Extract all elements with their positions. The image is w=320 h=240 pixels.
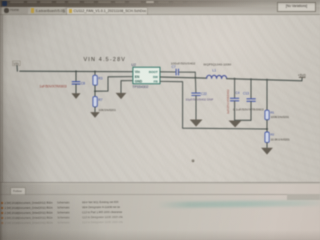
svg-text:C13: C13	[243, 91, 249, 95]
capacitor C22	[192, 93, 200, 95]
wire C8 top	[75, 71, 77, 81]
bottom messages panel	[0, 184, 320, 240]
node junction C4	[234, 78, 236, 80]
resistor R7	[93, 97, 97, 107]
node junction SW/C22	[194, 77, 196, 79]
wire C13 top	[250, 79, 252, 98]
ground below C4/C13	[229, 121, 242, 128]
resistor R3	[93, 75, 97, 85]
bottom separator line	[0, 182, 320, 183]
svg-text:0.1uF/50V/X7R/0603: 0.1uF/50V/X7R/0603	[233, 107, 264, 111]
top menu bar	[0, 0, 320, 7]
bottom-right gray box	[287, 194, 320, 200]
svg-text:10K/1%/0201: 10K/1%/0201	[99, 108, 117, 112]
ground below C22	[190, 120, 203, 127]
wire C22 bottom	[195, 96, 197, 120]
wire EN dogleg	[95, 77, 132, 92]
wire R7 top	[94, 91, 96, 96]
inductor L1	[207, 75, 227, 78]
capacitor C13	[247, 99, 255, 102]
svg-text:C7: C7	[172, 65, 176, 69]
svg-text:VIN: VIN	[14, 62, 20, 66]
bottom panel tab	[10, 187, 26, 195]
teal glare streak	[156, 200, 320, 208]
node junction divider	[266, 79, 268, 81]
svg-text:100K/1%/0201: 100K/1%/0201	[271, 115, 290, 119]
power port +5V flag	[298, 73, 306, 80]
svg-text:+5V0: +5V0	[298, 73, 306, 77]
svg-text:GND: GND	[135, 79, 143, 83]
wire C13 bottom	[250, 102, 252, 121]
capacitor C7	[176, 69, 178, 75]
wire VOUT rail	[227, 79, 302, 81]
wire VIN rail	[20, 70, 132, 73]
wire R3 bottom to node	[94, 85, 96, 91]
svg-text:C8: C8	[81, 81, 85, 85]
resistor R1	[265, 110, 269, 120]
wire C4 bottom	[234, 101, 236, 120]
svg-text:VIN 4.5-28V: VIN 4.5-28V	[84, 57, 127, 63]
svg-text:L1: L1	[212, 68, 216, 72]
svg-text:100nF/50V/0402: 100nF/50V/0402	[171, 61, 196, 65]
wire divider top	[266, 80, 268, 110]
svg-text:C4: C4	[235, 91, 239, 95]
svg-text:10µF/50V/0402 DNP: 10µF/50V/0402 DNP	[186, 97, 214, 101]
ground below divider	[261, 148, 273, 155]
node junction C13	[250, 78, 252, 80]
ground below C8	[71, 93, 80, 99]
power port VIN flag	[13, 61, 21, 71]
wire output caps ground bus	[235, 119, 251, 121]
node junction R3	[94, 71, 96, 73]
wire BOOT to C7	[160, 71, 176, 73]
svg-text:R2: R2	[270, 132, 274, 136]
svg-text:C22: C22	[201, 92, 207, 96]
wire R7 bottom	[94, 107, 96, 112]
document tab strip	[0, 7, 320, 15]
ground below IC GND pin	[116, 93, 127, 99]
node junction FB	[266, 128, 268, 130]
svg-text:Vin: Vin	[135, 70, 140, 74]
wire C22 top	[194, 78, 197, 93]
svg-text:TPS54302: TPS54302	[132, 85, 148, 89]
wire divider bottom	[266, 143, 268, 148]
svg-text:R7: R7	[98, 98, 102, 102]
svg-text:R3: R3	[98, 77, 102, 81]
svg-text:1uF/25V/X5R/0402: 1uF/25V/X5R/0402	[226, 89, 230, 114]
svg-text:WQP5Q1040-100M: WQP5Q1040-100M	[203, 63, 231, 67]
svg-text:1uF/50V/X7R/0603: 1uF/50V/X7R/0603	[40, 84, 67, 88]
svg-text:U2: U2	[131, 63, 136, 67]
mouse cursor speck	[192, 159, 195, 162]
messages rows	[0, 196, 320, 231]
node junction EN divider	[94, 90, 96, 92]
wire SW to inductor	[160, 77, 207, 78]
wire C7 to SW node	[179, 72, 195, 78]
wire C8 bottom	[75, 84, 77, 93]
wire GND pin dogleg	[121, 81, 132, 93]
resistor R2	[265, 132, 269, 143]
svg-text:R1: R1	[270, 110, 274, 114]
node junction C8	[75, 70, 77, 72]
svg-text:10.0K/1%/0201: 10.0K/1%/0201	[271, 138, 291, 142]
op-amp / IC U2 body	[133, 67, 160, 84]
wire divider mid	[266, 120, 268, 132]
wire R3 top	[94, 72, 96, 76]
ground below R7	[90, 112, 100, 118]
wire FB net	[160, 81, 267, 129]
svg-text:BOOT: BOOT	[149, 70, 158, 74]
schematic background	[0, 15, 320, 183]
wire C4 top	[234, 79, 236, 98]
capacitor C4	[230, 98, 238, 101]
capacitor C8	[72, 82, 80, 84]
